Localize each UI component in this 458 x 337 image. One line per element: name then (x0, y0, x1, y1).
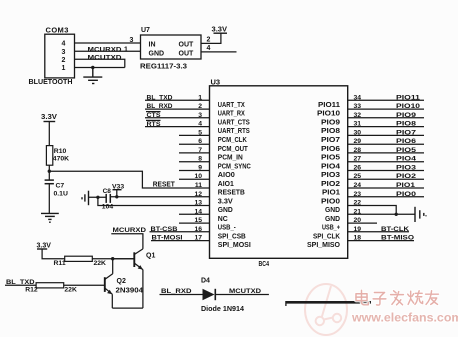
svg-text:RTS: RTS (147, 121, 161, 128)
power 3.3V bar at U7 (214, 32, 228, 34)
svg-text:4: 4 (62, 41, 66, 48)
wire pin10 stub (179, 178, 210, 180)
svg-text:BL_TXD: BL_TXD (147, 94, 173, 101)
wire pin31 PIO8 (348, 126, 424, 128)
wire COM3 pin1 to ground (75, 67, 125, 69)
svg-text:104: 104 (102, 204, 114, 211)
svg-text:15: 15 (194, 217, 202, 224)
junction dot RC node (48, 170, 51, 173)
svg-text:BT-CSB: BT-CSB (151, 226, 178, 233)
wire pin5 stub (179, 134, 210, 136)
wire pin18 BT-MISO (348, 240, 414, 242)
wire pin16 BT-CSB (150, 231, 210, 233)
wire pin28 PIO5 (348, 152, 424, 154)
svg-text:PCM_SYNC: PCM_SYNC (218, 163, 251, 170)
character 友 (426, 291, 439, 305)
junction dot (91, 66, 94, 69)
character 烧 (408, 291, 423, 305)
wire pin21 GND to ground (348, 213, 415, 215)
svg-text:22K: 22K (94, 260, 107, 267)
svg-text:Diode 1N914: Diode 1N914 (201, 306, 244, 313)
U3 internal right labels (307, 102, 341, 249)
wire MCUTXD COM3 pin2 (75, 59, 125, 67)
svg-text:RESET: RESET (153, 181, 176, 188)
junction dot pins 21-22 (395, 213, 398, 216)
svg-text:23: 23 (354, 191, 362, 198)
svg-text:OUT: OUT (179, 50, 195, 57)
transistor Q2 (105, 274, 113, 308)
svg-text:MCUTXD: MCUTXD (229, 288, 261, 295)
svg-text:MCURXD: MCURXD (88, 47, 122, 54)
svg-text:D4: D4 (201, 277, 210, 284)
ground under COM3 (83, 68, 102, 84)
character 友 (426, 291, 439, 305)
svg-text:C7: C7 (56, 182, 65, 189)
watermark text 电子发烧友 (drawn as vector strokes) (356, 290, 438, 305)
svg-text:13: 13 (194, 200, 202, 207)
wire pin1 BL_TXD (145, 99, 210, 101)
svg-text:PCM_IN: PCM_IN (218, 155, 243, 162)
watermark char cores (356, 290, 438, 305)
wire C7 to ground (48, 184, 50, 214)
wire pin24 PIO1 (348, 187, 424, 189)
wire MCURXD to Q1 collector (111, 234, 143, 249)
svg-text:33: 33 (354, 103, 362, 110)
svg-text:16: 16 (194, 226, 202, 233)
svg-text:3: 3 (130, 37, 134, 44)
svg-text:30: 30 (354, 129, 362, 136)
diode D4 cathode bar (214, 289, 216, 300)
svg-text:Q1: Q1 (146, 253, 155, 260)
svg-text:PIO11: PIO11 (396, 94, 420, 101)
wire 3.3V to R11 (42, 249, 65, 259)
svg-text:3.3V: 3.3V (218, 198, 233, 205)
svg-text:REG1117-3.3: REG1117-3.3 (140, 64, 187, 71)
svg-text:R10: R10 (54, 148, 67, 155)
wire emitter rail (112, 307, 143, 309)
wire ground to C8 (89, 196, 107, 198)
svg-text:BT-MISO: BT-MISO (381, 235, 414, 242)
svg-text:C8: C8 (103, 188, 112, 195)
wire BL_RXD to D4 (160, 294, 203, 296)
svg-text:18: 18 (354, 235, 362, 242)
wire pin2 BL_RXD (145, 108, 210, 110)
watermark black bar (286, 301, 371, 304)
resistor R11 body (65, 256, 93, 261)
svg-text:SPI_MOSI: SPI_MOSI (218, 242, 251, 249)
svg-text:PIO6: PIO6 (396, 138, 416, 145)
svg-text:21: 21 (354, 208, 362, 215)
svg-text:PIO9: PIO9 (396, 112, 416, 119)
svg-text:SPI_CLK: SPI_CLK (313, 233, 340, 240)
svg-text:BL_RXD: BL_RXD (161, 288, 192, 295)
arrow Q2 emitter (107, 290, 112, 295)
svg-text:PIO10: PIO10 (317, 111, 340, 118)
character 发 (391, 291, 404, 305)
svg-text:GND: GND (325, 207, 340, 214)
svg-text:USB_+: USB_+ (322, 225, 340, 232)
wire 3.3V to R10 (48, 122, 50, 146)
connector COM3 (45, 34, 75, 78)
wire U7 OUT pin4 (201, 51, 237, 53)
svg-text:PIO2: PIO2 (396, 173, 416, 180)
transistor Q1 (134, 249, 143, 308)
svg-text:PIO11: PIO11 (318, 102, 340, 109)
svg-text:PIO4: PIO4 (321, 163, 340, 170)
U3 right net labels (381, 94, 420, 241)
svg-text:R11: R11 (54, 260, 66, 267)
svg-text:1: 1 (62, 65, 66, 72)
svg-text:4: 4 (198, 121, 202, 128)
wire pin30 PIO7 (348, 134, 424, 136)
wire pin17 BT-MOSI (151, 240, 210, 242)
wire D4 to MCUTXD (215, 294, 269, 296)
wire gnd node down to U3 pin13 (98, 197, 210, 205)
svg-text:3: 3 (198, 112, 202, 119)
svg-text:PIO3: PIO3 (321, 172, 340, 179)
svg-text:NC: NC (218, 216, 228, 223)
wire pin14 stub (179, 213, 210, 215)
svg-text:COM3: COM3 (46, 26, 69, 35)
svg-text:OUT: OUT (179, 41, 195, 48)
wire pin22 GND (348, 206, 397, 215)
svg-text:V33: V33 (112, 184, 124, 191)
bottom left labels (6, 227, 261, 313)
wire pin8 stub (179, 161, 210, 163)
svg-text:20: 20 (354, 217, 362, 224)
svg-text:2N3904: 2N3904 (116, 287, 144, 294)
svg-text:BT-CLK: BT-CLK (381, 226, 409, 233)
svg-text:PIO10: PIO10 (396, 103, 420, 110)
wire R11 to base node (92, 258, 134, 260)
svg-text:UART_CTS: UART_CTS (218, 119, 250, 126)
svg-text:PCM_OUT: PCM_OUT (218, 146, 249, 153)
junction dot C8 gnd node (96, 196, 99, 199)
resistor R10 body (46, 146, 52, 166)
svg-text:PIO3: PIO3 (396, 165, 416, 172)
svg-text:BT-MOSI: BT-MOSI (152, 235, 183, 242)
svg-text:PIO0: PIO0 (396, 191, 416, 198)
svg-text:PIO8: PIO8 (396, 121, 416, 128)
svg-text:3.3V: 3.3V (212, 26, 228, 33)
wire pin23 PIO0 (348, 196, 424, 198)
svg-text:2: 2 (207, 37, 211, 44)
capacitor C7 plates (45, 180, 54, 184)
svg-text:470K: 470K (53, 155, 69, 162)
U3 right pin numbers (354, 94, 362, 241)
svg-text:AIO0: AIO0 (218, 172, 235, 179)
svg-text:1: 1 (124, 47, 128, 54)
IC U3 box (210, 86, 348, 258)
svg-text:GND: GND (325, 216, 340, 223)
svg-text:PIO2: PIO2 (321, 181, 340, 188)
power V33 tick (116, 190, 118, 197)
svg-text:SPI_MISO: SPI_MISO (307, 242, 341, 249)
svg-text:7: 7 (198, 147, 202, 154)
wire pin15 stub (179, 222, 210, 224)
svg-text:Q2: Q2 (117, 278, 126, 285)
svg-text:BL_TXD: BL_TXD (6, 279, 35, 286)
svg-text:22K: 22K (64, 287, 77, 294)
svg-text:UART_TX: UART_TX (218, 102, 245, 109)
svg-text:PIO6: PIO6 (321, 146, 340, 153)
svg-text:10: 10 (194, 173, 202, 180)
svg-text:11: 11 (195, 182, 202, 189)
wire pin4 RTS (145, 126, 210, 128)
power 3.3V bar at R10 (44, 121, 56, 123)
character 子 (373, 292, 386, 305)
svg-text:PIO4: PIO4 (396, 156, 416, 163)
wire COM3 pin4 to U7 IN (75, 42, 141, 44)
svg-text:AIO1: AIO1 (218, 181, 234, 188)
svg-text:34: 34 (354, 94, 362, 101)
svg-text:GND: GND (218, 207, 233, 214)
svg-text:12: 12 (194, 191, 202, 198)
svg-text:17: 17 (194, 235, 202, 242)
svg-text:3.3V: 3.3V (41, 114, 57, 121)
wire pin27 PIO4 (348, 161, 424, 163)
wire pin29 PIO6 (348, 143, 424, 145)
wire pin33 PIO10 (348, 108, 424, 110)
svg-text:UART_RX: UART_RX (218, 111, 245, 118)
ground sideways right (415, 207, 426, 222)
svg-text:3: 3 (62, 49, 66, 56)
svg-text:0.1U: 0.1U (54, 190, 68, 197)
svg-text:GND: GND (149, 50, 165, 57)
ground under C7 (41, 213, 59, 222)
regulator U7 box (141, 35, 202, 59)
U3 left net labels (147, 94, 183, 241)
svg-text:8: 8 (198, 156, 202, 163)
character 电 (356, 290, 368, 304)
wire pin20 stub (348, 222, 377, 224)
svg-text:U3: U3 (211, 78, 221, 87)
wire MCURXD COM3 pin3 to U7 GND (75, 50, 141, 52)
svg-text:R12: R12 (25, 287, 38, 294)
wire U7 OUT pin2 to 3.3V (201, 33, 221, 43)
svg-text:6: 6 (198, 138, 202, 145)
wire pin3 CTS (145, 117, 210, 119)
ground sideways at C8 (82, 191, 89, 206)
wire pin7 stub (179, 152, 210, 154)
wire pin26 PIO3 (348, 170, 424, 172)
junction dot V33 (115, 195, 118, 198)
wire pin9 stub (179, 170, 210, 172)
svg-text:26: 26 (354, 165, 362, 172)
wire pin34 PIO11 (348, 99, 424, 101)
wire C8 to U3 pin12 V33 (110, 196, 209, 198)
junction dot base node (111, 257, 114, 260)
wire Q1 base to node (113, 258, 135, 260)
svg-text:MCURXD: MCURXD (113, 227, 147, 234)
overline RTS (146, 119, 161, 121)
svg-text:PIO9: PIO9 (321, 119, 340, 126)
svg-text:SPI_CSB: SPI_CSB (218, 233, 246, 240)
svg-text:PIO7: PIO7 (396, 129, 416, 136)
svg-text:CTS: CTS (147, 112, 161, 119)
resistor R12 body (36, 283, 64, 288)
character 子 (373, 292, 386, 305)
svg-text:29: 29 (354, 138, 362, 145)
U3 left pin numbers (194, 94, 202, 241)
wire node down to Q2 collector (112, 259, 114, 274)
svg-text:MCUTXD: MCUTXD (88, 55, 122, 62)
wire BL_TXD to R12 (5, 284, 36, 286)
svg-text:UART_RTS: UART_RTS (218, 128, 250, 135)
svg-text:PIO5: PIO5 (396, 147, 416, 154)
svg-text:5: 5 (198, 129, 202, 136)
diode D4 (203, 289, 215, 300)
svg-text:22: 22 (354, 200, 362, 207)
wire pin32 PIO9 (348, 117, 424, 119)
svg-text:PIO1: PIO1 (322, 190, 340, 197)
svg-text:32: 32 (354, 112, 362, 119)
wire pin6 stub (179, 143, 210, 145)
svg-text:25: 25 (354, 173, 362, 180)
svg-text:IN: IN (149, 41, 156, 48)
svg-text:27: 27 (354, 156, 362, 163)
svg-text:28: 28 (354, 147, 362, 154)
svg-text:2: 2 (62, 57, 66, 64)
svg-text:BLUETOOTH: BLUETOOTH (29, 79, 73, 86)
character 烧 (408, 291, 423, 305)
character 电 (356, 290, 368, 304)
wire R10 to C7 node (48, 165, 50, 180)
capacitor C8 plates (106, 194, 110, 203)
svg-text:USB_-: USB_- (218, 225, 237, 232)
wire pin25 PIO2 (348, 178, 424, 180)
svg-text:RESETB: RESETB (218, 190, 245, 197)
svg-text:BC4: BC4 (259, 261, 270, 268)
svg-text:1: 1 (198, 94, 202, 101)
wire pin19 BT-CLK (348, 231, 409, 233)
U3 internal left labels (218, 102, 251, 249)
svg-text:PIO7: PIO7 (321, 137, 340, 144)
svg-text:3.3V: 3.3V (37, 243, 52, 250)
overline CTS (146, 111, 161, 113)
svg-text:19: 19 (354, 226, 362, 233)
svg-text:31: 31 (354, 121, 362, 128)
svg-text:U7: U7 (141, 27, 150, 34)
watermark logo circle (305, 284, 347, 335)
svg-text:www.elecfans.com: www.elecfans.com (351, 311, 458, 325)
svg-text:24: 24 (354, 182, 362, 189)
svg-text:9: 9 (198, 165, 202, 172)
svg-text:BL_RXD: BL_RXD (147, 103, 173, 110)
svg-text:PIO8: PIO8 (321, 128, 340, 135)
svg-text:PIO0: PIO0 (321, 198, 340, 205)
svg-text:2: 2 (198, 103, 202, 110)
wire R12 to Q2 base (64, 284, 105, 286)
svg-text:14: 14 (194, 208, 202, 215)
character 发 (391, 291, 404, 305)
wire RESET net to U3 pin11 (49, 171, 209, 188)
svg-text:PIO1: PIO1 (396, 182, 415, 189)
arrow Q1 emitter (138, 265, 143, 270)
svg-text:PIO5: PIO5 (321, 155, 340, 162)
power 3.3V bar at R11 (37, 248, 47, 250)
svg-text:PCM_CLK: PCM_CLK (218, 137, 247, 144)
svg-text:4: 4 (207, 45, 211, 52)
